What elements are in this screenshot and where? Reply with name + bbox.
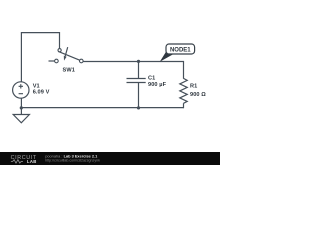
svg-text:SW1: SW1 bbox=[63, 68, 75, 74]
svg-text:6.09 V: 6.09 V bbox=[33, 90, 50, 96]
svg-text:R1: R1 bbox=[190, 84, 197, 90]
svg-text:http://circuitlab.com/c82azsgn: http://circuitlab.com/c82azsgnzynk bbox=[45, 158, 100, 162]
svg-text:900 µF: 900 µF bbox=[148, 82, 167, 88]
svg-text:900 Ω: 900 Ω bbox=[190, 92, 206, 98]
svg-text:V1: V1 bbox=[33, 84, 40, 90]
svg-text:C1: C1 bbox=[148, 75, 155, 81]
svg-text:NODE1: NODE1 bbox=[170, 48, 191, 54]
svg-text:LAB: LAB bbox=[27, 159, 37, 164]
